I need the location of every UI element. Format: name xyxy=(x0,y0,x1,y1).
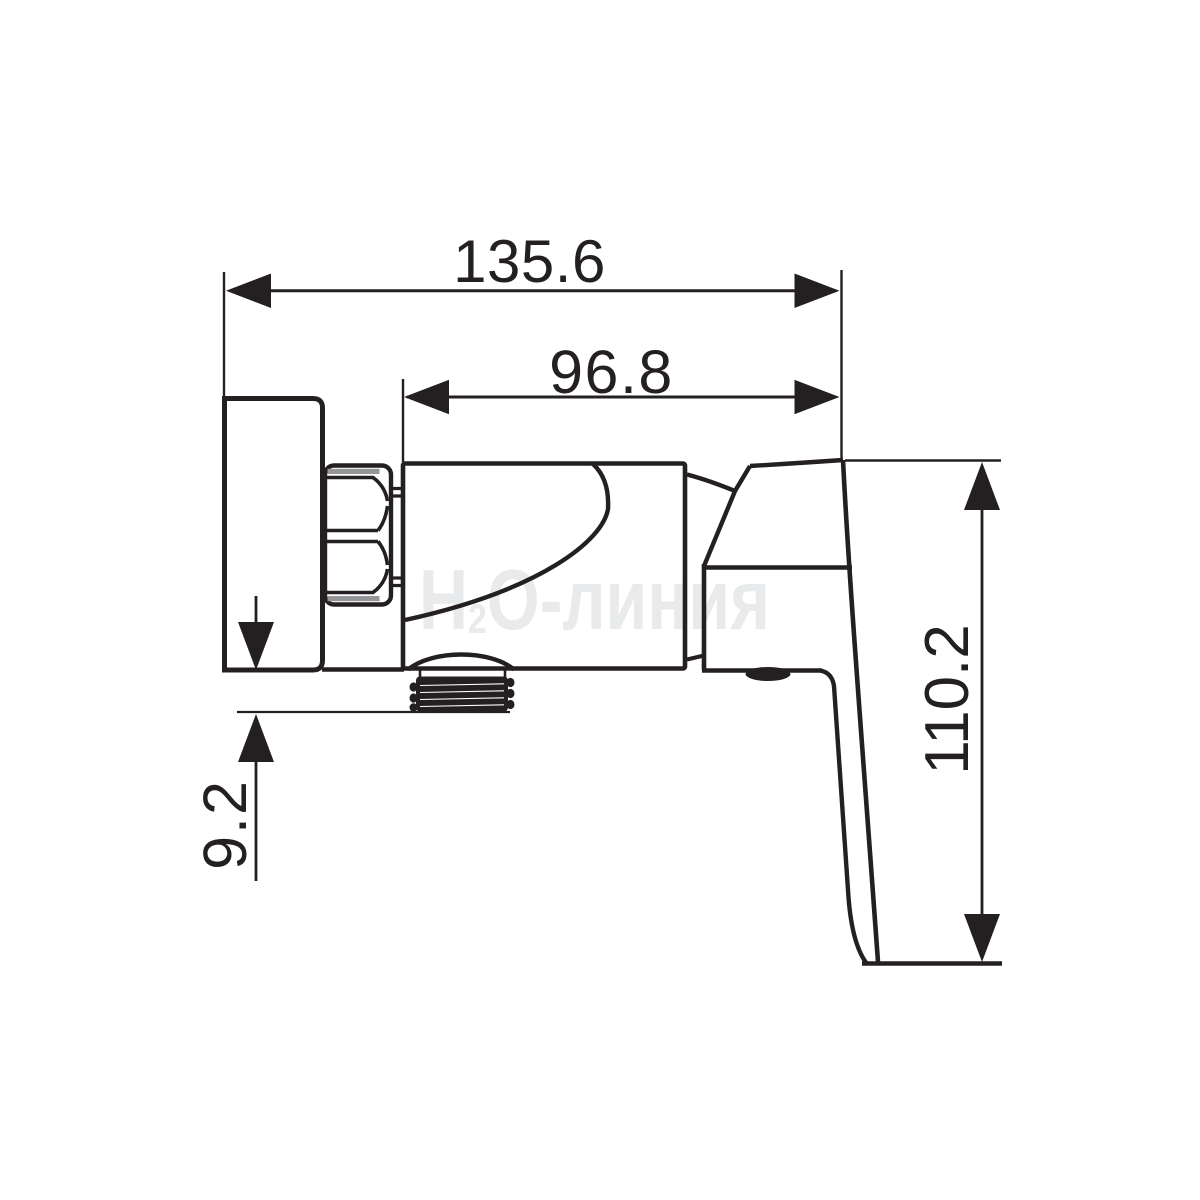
dim 9.2 down arrow xyxy=(238,622,274,670)
body decorative swoosh curve xyxy=(405,464,608,620)
thread bump left 2 xyxy=(410,693,418,702)
handle back upper slant xyxy=(704,466,750,566)
nut lower upper arc xyxy=(378,542,388,566)
dim 110.2 line xyxy=(981,470,984,955)
handle lever back edge xyxy=(820,671,866,963)
mixer body xyxy=(403,464,685,669)
nut lower connection tab xyxy=(391,578,402,586)
wall plate xyxy=(225,399,323,671)
dim 135.6 right arrow xyxy=(795,274,840,309)
dim 9.2 upper pointer line xyxy=(255,596,258,640)
svg-text:96.8: 96.8 xyxy=(549,338,674,406)
nut top chamfer gray band xyxy=(328,469,380,474)
lever bottom line xyxy=(702,565,852,569)
thread bump right 2 xyxy=(507,689,515,698)
svg-text:135.6: 135.6 xyxy=(453,228,606,295)
dim 110.2 top reference line xyxy=(845,459,1001,461)
dim 96.8 left extension line xyxy=(402,379,404,462)
nut middle lines xyxy=(325,531,378,542)
connector pipe bottom line xyxy=(322,667,404,672)
outlet collar right edge xyxy=(504,670,507,677)
escutcheon bottom blob xyxy=(746,667,791,681)
threaded outlet block xyxy=(416,677,508,712)
handle front edge xyxy=(843,460,878,962)
nut upper connection tab xyxy=(391,489,402,497)
handle top edge xyxy=(750,460,843,466)
cartridge cone bottom line xyxy=(687,656,704,660)
dim 135.6 left extension line xyxy=(223,272,225,400)
cartridge cone top line xyxy=(687,475,735,492)
dim 110.2 top arrow xyxy=(964,462,1000,510)
dim right extension line shared xyxy=(840,270,842,460)
escutcheon left edge xyxy=(702,564,707,670)
dim 135.6 left arrow xyxy=(226,274,271,309)
thread groove lines xyxy=(420,684,504,707)
nut bottom chamfer gray band xyxy=(328,596,380,601)
dim 9.2 up arrow xyxy=(238,714,274,762)
outlet collar left edge xyxy=(419,670,422,677)
thread bump right 3 xyxy=(507,700,515,709)
nut upper lower arc xyxy=(378,506,388,531)
dim 9.2 reference line xyxy=(237,711,510,713)
nut upper face line with corner arc xyxy=(327,478,388,502)
thread bump left 1 xyxy=(410,682,418,691)
dim 110.2 bottom arrow xyxy=(964,914,1000,962)
nut lower face line with corner arc xyxy=(327,569,388,593)
watermark H2O-линия xyxy=(419,553,770,648)
outlet dome xyxy=(408,655,514,670)
dim 96.8 line xyxy=(407,396,836,399)
thread bump right 1 xyxy=(507,678,515,687)
escutcheon bottom edge xyxy=(702,668,822,672)
handle tip bottom and lower reference line xyxy=(862,961,1002,965)
svg-text:110.2: 110.2 xyxy=(913,624,982,775)
dim 135.6 line xyxy=(230,289,836,292)
thread bump left 3 xyxy=(410,703,418,711)
dim 9.2 lower pointer line xyxy=(255,762,258,881)
eccentric nut block outline xyxy=(325,466,391,605)
dim 96.8 left arrow xyxy=(404,380,449,414)
dim 96.8 right arrow xyxy=(795,380,840,414)
svg-text:9.2: 9.2 xyxy=(191,779,259,870)
